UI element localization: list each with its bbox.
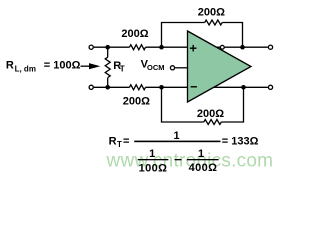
svg-text:R: R bbox=[6, 60, 14, 72]
svg-text:= 133Ω: = 133Ω bbox=[222, 136, 259, 148]
svg-text:200Ω: 200Ω bbox=[198, 7, 225, 19]
svg-text:1: 1 bbox=[149, 148, 155, 160]
svg-text:200Ω: 200Ω bbox=[197, 108, 224, 120]
svg-text:R: R bbox=[109, 135, 117, 147]
svg-text:T: T bbox=[120, 64, 125, 73]
svg-text:= 100Ω: = 100Ω bbox=[44, 60, 81, 72]
svg-text:1: 1 bbox=[174, 130, 180, 142]
svg-text:100Ω: 100Ω bbox=[139, 162, 168, 174]
svg-text:=: = bbox=[123, 135, 129, 147]
svg-text:OCM: OCM bbox=[147, 63, 165, 72]
svg-text:T: T bbox=[117, 140, 122, 149]
svg-text:200Ω: 200Ω bbox=[121, 28, 148, 40]
svg-text:1: 1 bbox=[198, 148, 204, 160]
svg-text:200Ω: 200Ω bbox=[123, 95, 150, 107]
svg-text:400Ω: 400Ω bbox=[189, 162, 218, 174]
svg-text:L, dm: L, dm bbox=[15, 64, 36, 73]
